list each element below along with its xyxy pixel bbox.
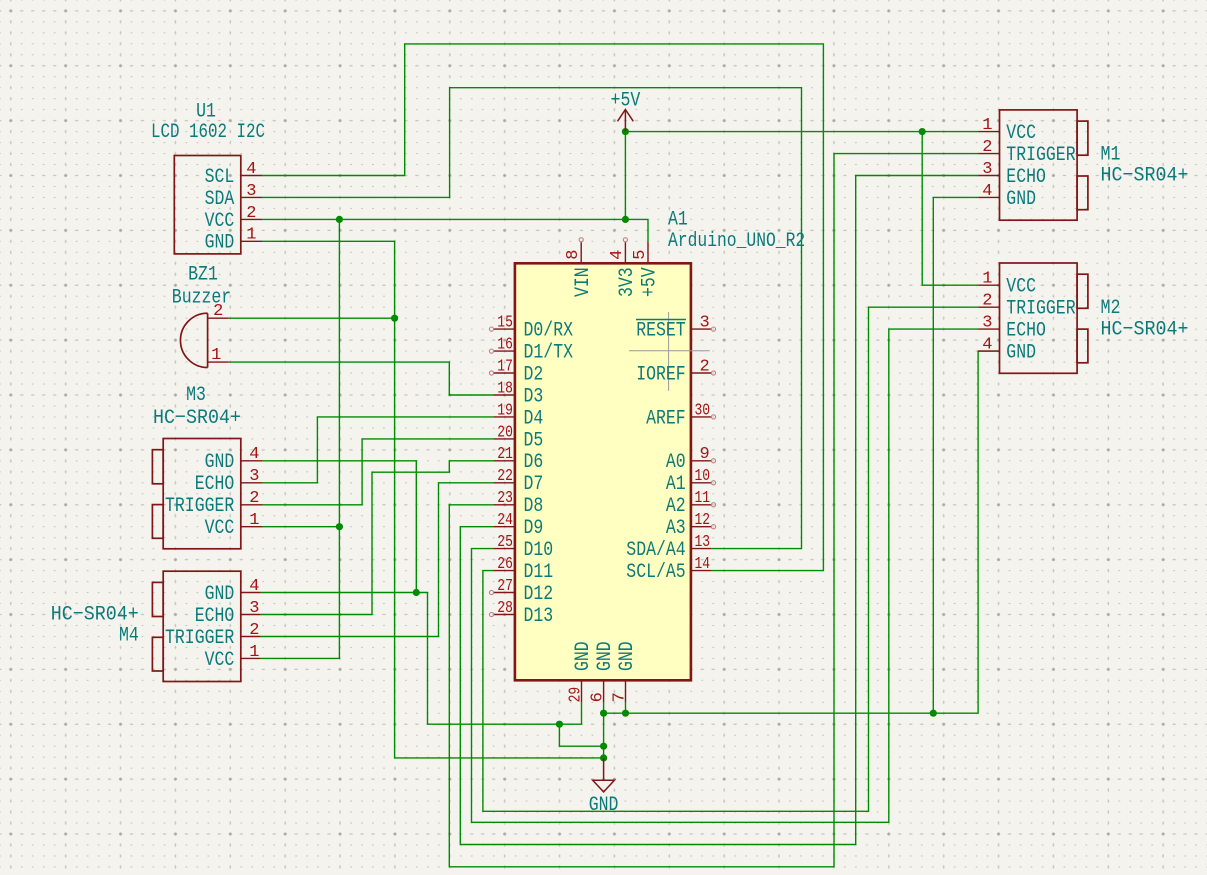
svg-text:TRIGGER: TRIGGER: [1006, 144, 1075, 167]
svg-text:SDA: SDA: [205, 188, 235, 211]
svg-text:SCL: SCL: [205, 166, 235, 189]
svg-text:23: 23: [497, 489, 513, 508]
svg-text:8: 8: [564, 250, 583, 260]
svg-text:3: 3: [249, 599, 259, 618]
svg-text:AREF: AREF: [646, 407, 686, 430]
svg-text:24: 24: [497, 511, 513, 530]
svg-text:4: 4: [246, 160, 256, 179]
svg-text:27: 27: [497, 577, 513, 596]
svg-text:21: 21: [497, 445, 513, 464]
svg-text:D5: D5: [524, 429, 544, 452]
svg-text:15: 15: [497, 314, 513, 333]
svg-text:M2: M2: [1101, 297, 1121, 320]
svg-text:VCC: VCC: [205, 517, 235, 540]
svg-text:4: 4: [608, 250, 627, 260]
svg-text:16: 16: [497, 336, 513, 355]
svg-text:4: 4: [249, 577, 259, 596]
svg-text:M4: M4: [119, 624, 139, 647]
svg-text:D6: D6: [524, 451, 544, 474]
svg-text:14: 14: [695, 555, 711, 574]
svg-text:GND: GND: [205, 451, 235, 474]
svg-text:D11: D11: [524, 561, 554, 584]
svg-text:2: 2: [213, 302, 223, 321]
svg-text:TRIGGER: TRIGGER: [165, 627, 234, 650]
svg-text:A1: A1: [668, 208, 688, 231]
svg-text:D0/RX: D0/RX: [524, 320, 574, 343]
svg-text:11: 11: [695, 489, 711, 508]
svg-text:A0: A0: [666, 451, 686, 474]
svg-text:1: 1: [249, 643, 259, 662]
svg-text:1: 1: [982, 116, 992, 135]
svg-text:D12: D12: [524, 583, 554, 606]
svg-text:+5V: +5V: [639, 267, 662, 297]
svg-text:5: 5: [631, 250, 650, 260]
svg-text:18: 18: [497, 379, 513, 398]
svg-text:4: 4: [249, 445, 259, 464]
svg-text:28: 28: [497, 599, 513, 618]
svg-text:2: 2: [982, 138, 992, 157]
svg-text:GND: GND: [572, 641, 595, 671]
svg-text:12: 12: [695, 511, 711, 530]
svg-text:M1: M1: [1101, 144, 1121, 167]
svg-text:IOREF: IOREF: [636, 363, 686, 386]
svg-text:ECHO: ECHO: [195, 473, 235, 496]
svg-text:17: 17: [497, 357, 513, 376]
svg-text:7: 7: [610, 692, 629, 702]
svg-text:GND: GND: [205, 232, 235, 255]
svg-text:3: 3: [249, 467, 259, 486]
svg-text:A1: A1: [666, 473, 686, 496]
svg-text:D10: D10: [524, 539, 554, 562]
svg-text:3: 3: [246, 182, 256, 201]
svg-text:3: 3: [700, 314, 710, 333]
svg-text:D8: D8: [524, 495, 544, 518]
svg-text:2: 2: [249, 489, 259, 508]
svg-text:RESET: RESET: [636, 320, 686, 343]
svg-text:VCC: VCC: [1006, 122, 1036, 145]
svg-text:HC−SR04+: HC−SR04+: [1101, 319, 1189, 342]
svg-text:ECHO: ECHO: [195, 605, 235, 628]
svg-text:GND: GND: [205, 583, 235, 606]
svg-text:13: 13: [695, 533, 711, 552]
svg-text:1: 1: [211, 346, 221, 365]
svg-text:10: 10: [695, 467, 711, 486]
svg-text:D4: D4: [524, 407, 544, 430]
svg-text:3V3: 3V3: [616, 267, 639, 297]
svg-text:1: 1: [982, 270, 992, 289]
svg-text:9: 9: [700, 445, 710, 464]
svg-text:19: 19: [497, 401, 513, 420]
svg-text:ECHO: ECHO: [1006, 166, 1046, 189]
svg-text:1: 1: [249, 511, 259, 530]
svg-text:30: 30: [695, 401, 711, 420]
svg-text:2: 2: [982, 292, 992, 311]
svg-text:3: 3: [982, 314, 992, 333]
svg-text:4: 4: [982, 182, 992, 201]
svg-text:TRIGGER: TRIGGER: [165, 495, 234, 518]
svg-text:VCC: VCC: [205, 649, 235, 672]
svg-text:6: 6: [588, 692, 607, 702]
svg-text:GND: GND: [594, 641, 617, 671]
svg-text:ECHO: ECHO: [1006, 320, 1046, 343]
svg-text:SCL/A5: SCL/A5: [626, 561, 685, 584]
svg-text:D7: D7: [524, 473, 544, 496]
svg-text:2: 2: [700, 357, 710, 376]
svg-text:HC−SR04+: HC−SR04+: [153, 407, 241, 430]
svg-text:D2: D2: [524, 363, 544, 386]
svg-text:VIN: VIN: [572, 267, 595, 297]
svg-text:D3: D3: [524, 385, 544, 408]
svg-text:TRIGGER: TRIGGER: [1006, 298, 1075, 321]
svg-text:HC−SR04+: HC−SR04+: [1101, 165, 1189, 188]
svg-text:GND: GND: [1006, 342, 1036, 365]
svg-text:25: 25: [497, 533, 513, 552]
svg-text:2: 2: [249, 621, 259, 640]
svg-text:22: 22: [497, 467, 513, 486]
svg-text:1: 1: [246, 226, 256, 245]
svg-text:2: 2: [246, 204, 256, 223]
svg-text:A3: A3: [666, 517, 686, 540]
svg-text:BZ1: BZ1: [188, 264, 218, 287]
svg-text:SDA/A4: SDA/A4: [626, 539, 685, 562]
svg-text:26: 26: [497, 555, 513, 574]
svg-text:GND: GND: [1006, 188, 1036, 211]
svg-text:D1/TX: D1/TX: [524, 342, 574, 365]
svg-text:GND: GND: [589, 794, 619, 817]
svg-text:LCD 1602 I2C: LCD 1602 I2C: [151, 121, 265, 144]
svg-text:M3: M3: [186, 384, 206, 407]
svg-text:A2: A2: [666, 495, 686, 518]
svg-text:GND: GND: [616, 641, 639, 671]
svg-text:29: 29: [566, 687, 585, 703]
svg-text:+5V: +5V: [611, 90, 641, 113]
svg-text:HC−SR04+: HC−SR04+: [51, 604, 139, 627]
svg-text:20: 20: [497, 423, 513, 442]
svg-text:U1: U1: [196, 101, 216, 124]
svg-text:D13: D13: [524, 605, 554, 628]
svg-text:D9: D9: [524, 517, 544, 540]
svg-text:Arduino_UNO_R2: Arduino_UNO_R2: [668, 230, 805, 253]
svg-text:3: 3: [982, 160, 992, 179]
svg-text:VCC: VCC: [205, 210, 235, 233]
svg-text:4: 4: [982, 336, 992, 355]
svg-text:VCC: VCC: [1006, 276, 1036, 299]
